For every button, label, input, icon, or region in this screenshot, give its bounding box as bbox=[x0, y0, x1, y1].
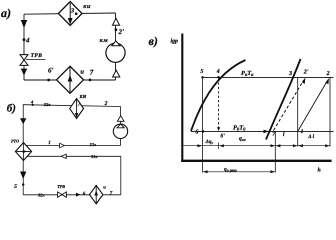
tick line at 7 bbox=[274, 131, 276, 172]
svg-text:5: 5 bbox=[200, 69, 203, 75]
vertical line from 5 bbox=[202, 77, 204, 172]
svg-text:h: h bbox=[318, 167, 321, 174]
wire right (a) bbox=[115, 13, 117, 80]
flow arrow left wire upper (b) bbox=[20, 118, 26, 124]
svg-text:км: км bbox=[100, 37, 109, 44]
chart x axis bbox=[181, 160, 331, 162]
node 5 dot (b) bbox=[22, 183, 24, 185]
flow arrow inside KI (a) bbox=[68, 3, 73, 25]
flow arrow inside I (a) bbox=[68, 68, 73, 93]
flow arrow left wire top (a) bbox=[21, 20, 27, 28]
svg-text:lgр: lgр bbox=[171, 37, 179, 44]
node 4 dot (a) bbox=[23, 38, 26, 41]
tick line at 1 bbox=[297, 77, 299, 146]
svg-text:6: 6 bbox=[83, 191, 86, 197]
tick 3 inside KI (b) bbox=[78, 103, 80, 106]
dimension line lower bbox=[183, 145, 330, 147]
dashed line from 4 bbox=[218, 78, 220, 128]
wire bottom (a) bbox=[24, 79, 116, 81]
svg-text:2': 2' bbox=[303, 70, 309, 76]
saturated liquid curve bbox=[191, 60, 246, 131]
wire compressor down (b) bbox=[120, 139, 122, 146]
arrow left on wire 2 (b) bbox=[61, 154, 66, 158]
svg-text:6: 6 bbox=[195, 130, 198, 136]
svg-text:7: 7 bbox=[110, 190, 113, 196]
svg-text:5: 5 bbox=[14, 184, 17, 190]
saturated vapour curve bbox=[266, 59, 301, 140]
arrowhead at 2 bbox=[325, 78, 329, 84]
arrow right on wire 1 (b) bbox=[60, 143, 65, 148]
wire bottom (b) bbox=[23, 194, 121, 196]
condenser KI (a) diamond bbox=[58, 2, 82, 26]
dim arrow q0c right bbox=[271, 144, 276, 147]
svg-text:б): б) bbox=[7, 102, 16, 114]
svg-text:в): в) bbox=[149, 34, 158, 48]
svg-text:Р0Т0: Р0Т0 bbox=[233, 125, 246, 132]
flow arrow inside KI (b) bbox=[75, 100, 79, 118]
node 2' dot (a) bbox=[115, 28, 118, 31]
svg-text:РТО: РТО bbox=[11, 138, 19, 143]
svg-text:7: 7 bbox=[90, 69, 94, 77]
svg-text:4: 4 bbox=[30, 99, 34, 104]
svg-text:1: 1 bbox=[48, 140, 51, 146]
svg-text:а): а) bbox=[1, 6, 11, 20]
svg-text:Δqс: Δqс bbox=[205, 139, 214, 145]
chart y axis bbox=[181, 34, 183, 162]
valve TPB (a) bowtie bbox=[20, 55, 28, 66]
compressor KM (b) triangle bbox=[117, 124, 124, 128]
isobar Pk Tk bbox=[202, 76, 333, 78]
condenser KI (b) diamond bbox=[70, 99, 84, 119]
flow arrow left wire bottom (a) bbox=[21, 69, 27, 76]
suction arrow to compressor (a) bbox=[113, 70, 120, 77]
wire 2 return (b) bbox=[27, 155, 121, 157]
dim arrow into 6 tick bbox=[197, 144, 202, 147]
svg-text:qос: qос bbox=[239, 136, 246, 142]
svg-text:и: и bbox=[103, 185, 106, 190]
internal vertical line RTO (b) bbox=[23, 144, 25, 160]
svg-text:32х: 32х bbox=[89, 142, 97, 147]
compressor KM (a) triangle bbox=[112, 41, 120, 46]
svg-text:4: 4 bbox=[25, 37, 30, 45]
svg-text:32х: 32х bbox=[43, 102, 51, 107]
dim arrow into 6' tick left bbox=[219, 144, 224, 147]
wire right upper (b) bbox=[120, 106, 122, 124]
svg-text:Δ l: Δ l bbox=[307, 134, 314, 140]
svg-text:4: 4 bbox=[216, 69, 220, 75]
TPB stem line (a) bbox=[26, 59, 46, 61]
svg-text:qо рто: qо рто bbox=[224, 167, 237, 173]
point 6 dot bbox=[202, 130, 205, 133]
evaporator I (a) diamond bbox=[57, 66, 84, 93]
node 7 dot (a) bbox=[89, 79, 92, 82]
svg-text:1: 1 bbox=[301, 129, 304, 135]
node 3 dot (a) bbox=[75, 12, 78, 15]
svg-text:3: 3 bbox=[288, 71, 292, 77]
svg-text:ТРВ: ТРВ bbox=[31, 53, 43, 59]
svg-text:6': 6' bbox=[48, 67, 54, 75]
svg-text:6': 6' bbox=[220, 134, 225, 140]
flow arrow on isobar P0 bbox=[264, 130, 269, 134]
compression line 7 to 2' dashed bbox=[274, 80, 304, 131]
compressor KM (a) circle bbox=[106, 43, 125, 62]
dim arrows l span bbox=[276, 144, 281, 147]
wire top (b) bbox=[23, 105, 121, 107]
svg-text:ки: ки bbox=[83, 3, 91, 10]
node 4 dot (b) bbox=[31, 104, 33, 106]
arrowhead at 2' bbox=[302, 78, 306, 84]
regenerator RTO diamond (b) bbox=[15, 143, 31, 161]
svg-text:РкТк: РкТк bbox=[241, 70, 254, 77]
svg-text:ТРВ: ТРВ bbox=[57, 184, 65, 189]
node 6' dot (a) bbox=[47, 79, 50, 82]
wire 1 suction (b) bbox=[26, 145, 120, 147]
evaporator I (b) diamond bbox=[90, 185, 103, 203]
flow arrow left wire lower (b) bbox=[20, 172, 26, 180]
discharge arrow (b) bbox=[117, 116, 124, 122]
tick line at 2 bbox=[329, 77, 331, 146]
svg-text:3: 3 bbox=[70, 7, 75, 14]
svg-text:2': 2' bbox=[118, 28, 125, 36]
point 5 dot bbox=[201, 76, 203, 78]
svg-text:2: 2 bbox=[104, 101, 108, 107]
svg-text:и: и bbox=[80, 68, 84, 75]
wire top (a) bbox=[24, 13, 116, 14]
discharge arrow (a) bbox=[112, 18, 119, 25]
tick at 6' on dimension line bbox=[218, 143, 220, 150]
svg-text:КИ: КИ bbox=[79, 94, 87, 99]
q0 rto arrows bbox=[203, 170, 208, 173]
valve TPB (b) bowtie bbox=[58, 192, 67, 197]
wire left (a) bbox=[23, 14, 25, 80]
wire left upper (b) bbox=[22, 105, 24, 143]
svg-text:2: 2 bbox=[326, 71, 330, 77]
flow arrow inside I (b) bbox=[94, 187, 98, 204]
wire left lower (b) bbox=[22, 160, 24, 194]
dim arrows dl span bbox=[298, 144, 303, 147]
flow arrow bottom wire (b) bbox=[76, 193, 80, 197]
compression line 1 to 2 bbox=[298, 81, 328, 132]
dimension line q0 rto bbox=[203, 171, 276, 173]
svg-text:31х: 31х bbox=[90, 154, 98, 159]
arrow down at 6' bbox=[217, 127, 220, 131]
isobar P0 T0 bbox=[191, 130, 334, 132]
flow arrow inside RTO (b) bbox=[17, 150, 31, 154]
svg-text:32х: 32х bbox=[37, 192, 45, 197]
wire right lower (b) bbox=[120, 156, 122, 195]
compressor KM (b) circle bbox=[113, 124, 127, 138]
svg-text:l: l bbox=[283, 131, 285, 138]
point 4 dot bbox=[217, 76, 219, 78]
